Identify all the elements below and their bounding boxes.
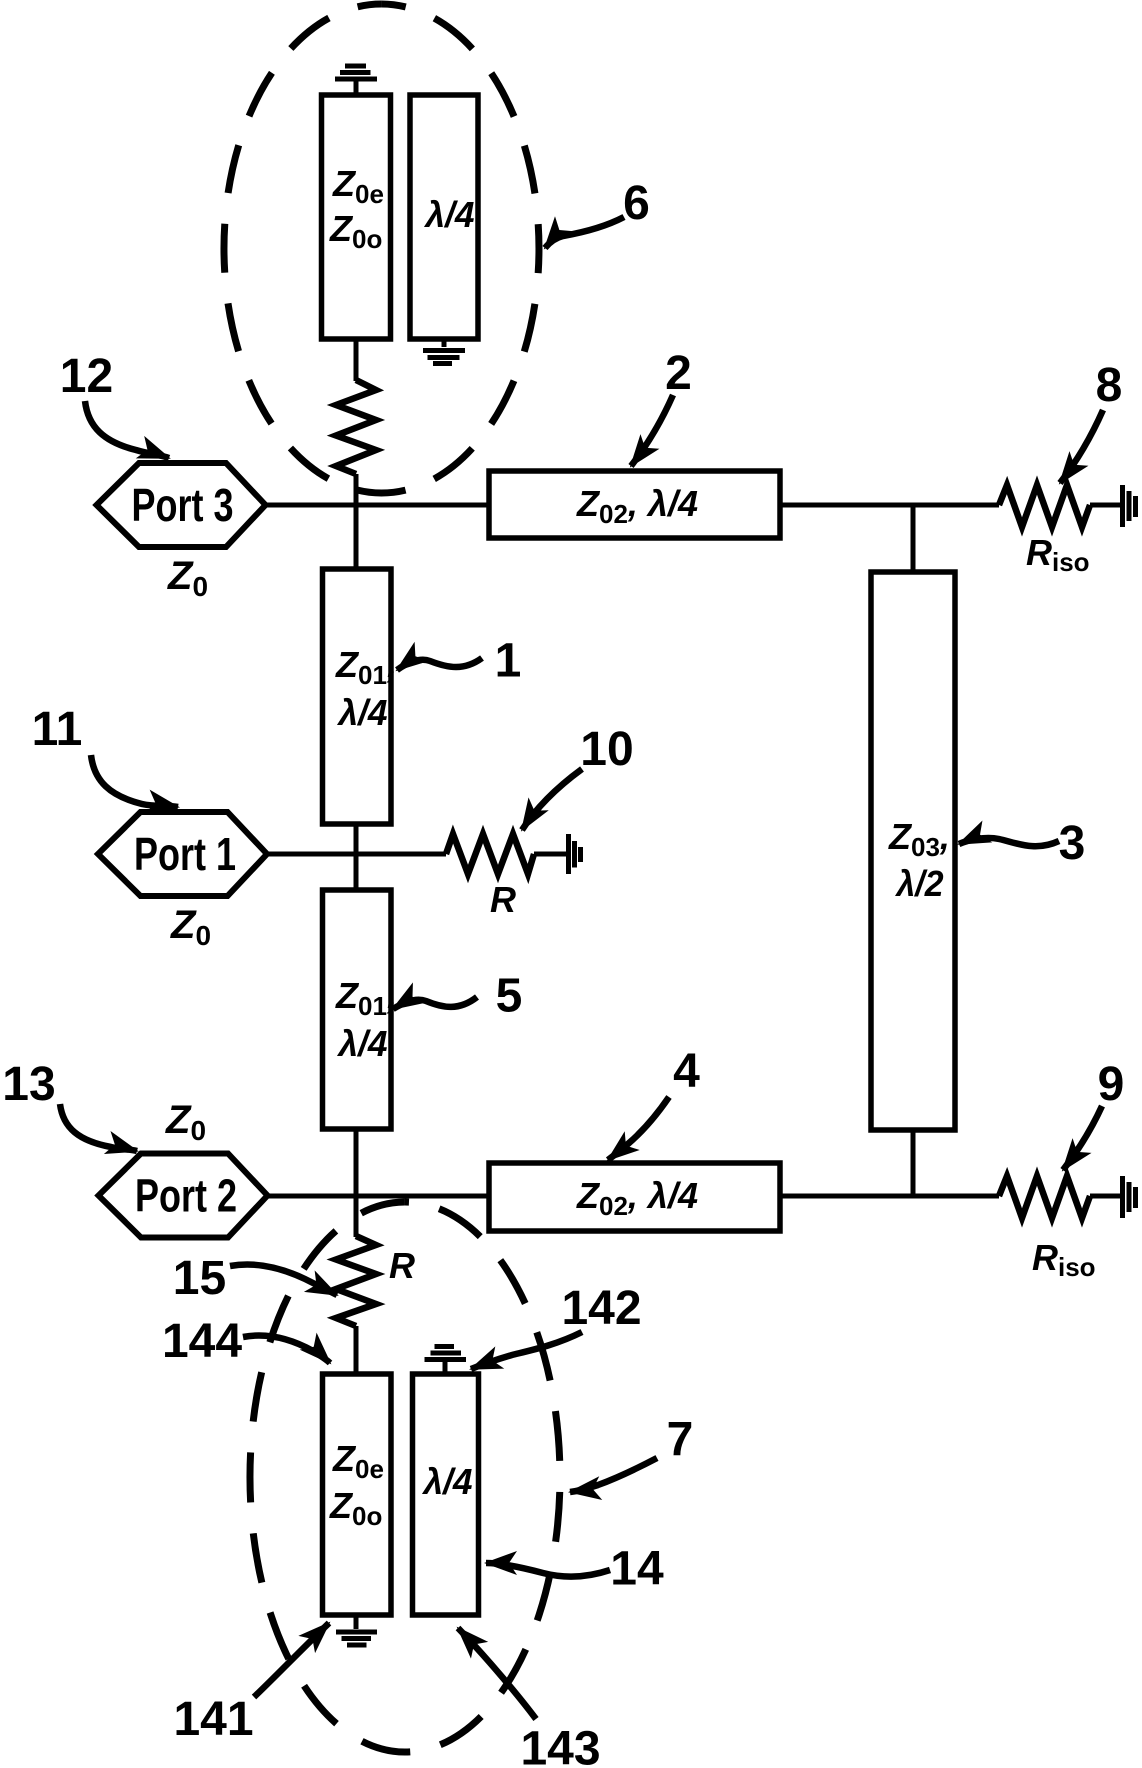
svg-text:13: 13 — [2, 1058, 55, 1111]
leader arrow 5 — [393, 997, 477, 1009]
transmission line λ/4 stub (bottom, 14/143) — [413, 1374, 479, 1615]
ground (bottom of top λ/4 stub) — [423, 339, 465, 364]
value label Z0e / Z0o (top) — [329, 163, 384, 254]
ground (Riso top) — [1123, 485, 1136, 527]
leader arrow 143 — [458, 1628, 536, 1719]
svg-text:11: 11 — [32, 703, 83, 756]
wire (Port 1 to node to resistor R) — [267, 852, 446, 857]
value label Z03, λ/2 (line 3) — [888, 816, 950, 904]
svg-text:9: 9 — [1098, 1058, 1125, 1111]
svg-text:7: 7 — [667, 1414, 694, 1467]
svg-text:15: 15 — [173, 1252, 226, 1305]
svg-text:143: 143 — [520, 1723, 600, 1768]
leader arrow 14 — [486, 1563, 610, 1577]
leader arrow 12 — [85, 401, 169, 458]
wire (Port 3 to node) — [266, 503, 490, 508]
ground (Riso bottom) — [1123, 1176, 1136, 1218]
leader arrow 11 — [91, 755, 178, 807]
ground (top of bottom λ/4 stub, 142) — [425, 1347, 467, 1375]
transmission line 5 (Z01, λ/4 lower) — [323, 890, 392, 1129]
leader arrow 7 — [570, 1458, 657, 1492]
svg-text:R: R — [389, 1245, 415, 1286]
wire (Riso bottom to ground) — [1090, 1194, 1120, 1199]
svg-text:12: 12 — [60, 350, 113, 403]
svg-text:6: 6 — [623, 177, 650, 230]
resistor Riso (top) — [999, 485, 1090, 527]
svg-text:3: 3 — [1059, 817, 1086, 870]
leader arrow 3 — [959, 838, 1059, 846]
svg-text:144: 144 — [162, 1315, 242, 1368]
leader arrow 13 — [60, 1104, 137, 1151]
resistor Riso (bottom) — [999, 1176, 1090, 1218]
wire (Z0e line bottom to resistor) — [354, 339, 359, 381]
wire (Riso top to ground) — [1090, 503, 1120, 508]
wire (line 2 to Riso top) — [780, 503, 999, 508]
svg-text:λ/4: λ/4 — [424, 194, 475, 235]
leader arrow 8 — [1060, 410, 1103, 483]
wire (line 1 to Port 1 node to line 5) — [354, 824, 359, 890]
dashed enclosure 6 (top coupled-line section) — [224, 4, 539, 493]
value label Z01, λ/4 (line 5) — [335, 975, 397, 1064]
leader arrow 10 — [522, 769, 582, 830]
leader arrow 4 — [608, 1097, 669, 1160]
leader arrow 144 — [243, 1336, 330, 1363]
leader arrow 2 — [631, 395, 673, 466]
resistor R 15 (Port 2 node to section 7) — [336, 1236, 376, 1326]
leader arrow 142 — [471, 1332, 582, 1369]
wire (R to ground) — [534, 852, 566, 857]
leader arrow 141 — [254, 1623, 329, 1697]
ground (R at Port 1) — [569, 834, 581, 874]
svg-text:Port 2: Port 2 — [135, 1170, 237, 1222]
svg-text:λ/4: λ/4 — [337, 692, 388, 733]
svg-text:141: 141 — [173, 1693, 253, 1746]
wire (Port 2 to node to line 4) — [268, 1194, 490, 1199]
transmission line 3 (Z03, λ/2) — [871, 572, 955, 1130]
transmission line 2 (Z02, λ/4 top) — [489, 471, 780, 538]
resistor R (Port 1 node) — [446, 834, 534, 874]
svg-text:Port 3: Port 3 — [132, 479, 234, 531]
svg-text:Port 1: Port 1 — [134, 828, 236, 880]
leader arrow 15 — [230, 1264, 337, 1295]
svg-text:2: 2 — [665, 347, 692, 400]
leader arrow 6 — [545, 217, 624, 248]
port symbol Port 3 — [97, 463, 266, 547]
wire (Z03 bottom to junction) — [911, 1130, 916, 1196]
svg-text:1: 1 — [495, 635, 522, 688]
wire (junction to Z03 top) — [911, 505, 916, 572]
transmission line 4 (Z02, λ/4 bottom) — [489, 1163, 780, 1231]
leader arrow 1 — [397, 658, 482, 670]
port symbol Port 2 — [99, 1154, 268, 1238]
svg-text:λ/4: λ/4 — [337, 1023, 388, 1064]
ground (top of Z0e/Z0o line in section 6) — [335, 66, 377, 95]
wire (line 5 to Port 2 node) — [354, 1129, 359, 1237]
wire (resistor to Port 3 node) — [354, 474, 359, 569]
svg-text:14: 14 — [610, 1543, 664, 1596]
svg-text:142: 142 — [561, 1282, 641, 1335]
svg-text:8: 8 — [1096, 359, 1123, 412]
svg-text:10: 10 — [580, 723, 633, 776]
svg-text:Z02, λ/4: Z02, λ/4 — [576, 1175, 698, 1221]
wire (line 4 to Riso bottom) — [780, 1194, 999, 1199]
transmission line 1 (Z01, λ/4 upper) — [323, 569, 392, 824]
transmission line λ/4 stub (top, in section 6) — [410, 95, 478, 339]
leader arrow 9 — [1063, 1106, 1102, 1170]
port symbol Port 1 — [98, 812, 267, 896]
svg-text:λ/4: λ/4 — [422, 1461, 473, 1502]
svg-text:Z02, λ/4: Z02, λ/4 — [576, 483, 698, 529]
value label Z0e / Z0o (bottom) — [329, 1438, 384, 1531]
svg-text:4: 4 — [673, 1045, 700, 1098]
svg-text:5: 5 — [496, 970, 523, 1023]
value label Z01, λ/4 (line 1) — [335, 644, 397, 733]
svg-text:R: R — [490, 879, 516, 920]
wire (resistor 15 to Z0e line top, node 144) — [354, 1326, 359, 1374]
transmission line Z0e/Z0o (bottom coupled section, 144/141) — [323, 1374, 392, 1615]
svg-text:λ/2: λ/2 — [895, 863, 944, 904]
dashed enclosure 7 (bottom coupled-line section) — [250, 1202, 560, 1752]
transmission line Z0e/Z0o (top coupled section) — [322, 95, 391, 339]
resistor (isolation R inside section 6) — [336, 380, 376, 474]
ground (bottom of Z0e/Z0o line, 141) — [336, 1615, 377, 1645]
